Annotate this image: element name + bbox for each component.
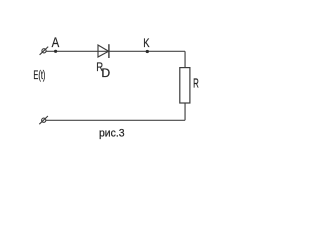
wire right vertical lower stub (184, 103, 186, 120)
node A junction dot (54, 50, 57, 53)
svg-text:K: K (143, 36, 149, 50)
node K junction dot (146, 50, 149, 53)
svg-text:D: D (101, 68, 110, 80)
wire right vertical upper stub (184, 51, 186, 67)
svg-text:A: A (52, 35, 60, 50)
diode VD triangle (anode) (98, 45, 109, 57)
diode cathode bar (108, 44, 110, 58)
svg-text:R: R (193, 75, 199, 90)
terminal bottom-left (circle with slash) (39, 116, 48, 124)
wire bottom horizontal (46, 119, 185, 121)
svg-text:рис.3: рис.3 (99, 127, 125, 139)
wire top horizontal A to corner (46, 50, 185, 52)
svg-text:E(t): E(t) (33, 68, 45, 82)
resistor R body (180, 68, 190, 103)
terminal top-left (circle with slash) (40, 47, 49, 55)
